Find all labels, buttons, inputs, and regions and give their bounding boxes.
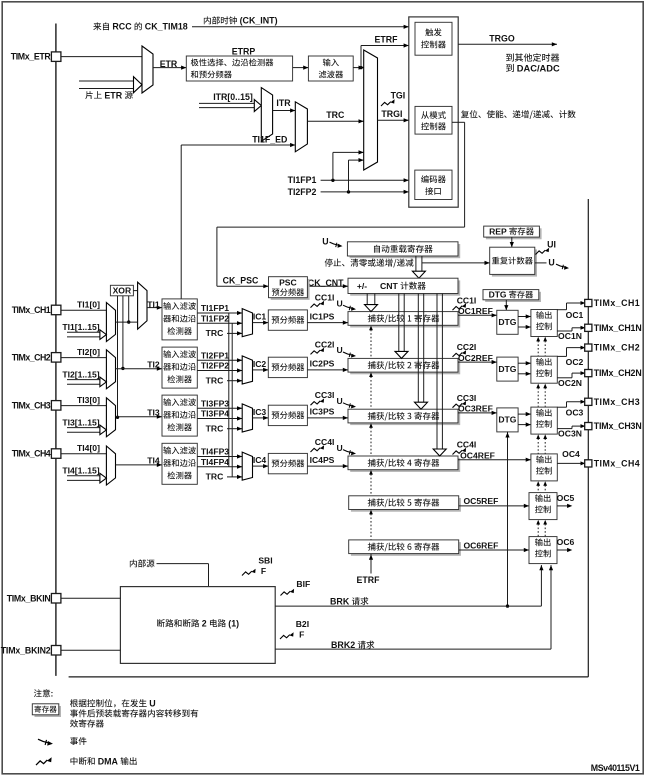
svg-text:B2I: B2I [296,619,309,629]
svg-text:TIMx_CH2: TIMx_CH2 [594,343,640,353]
svg-text:IC1: IC1 [253,312,267,322]
svg-text:TIMx_CH2N: TIMx_CH2N [594,368,642,378]
svg-text:CC3I: CC3I [457,393,477,403]
svg-text:TIMx_CH3N: TIMx_CH3N [594,421,642,431]
svg-text:OC3N: OC3N [558,429,582,439]
svg-text:TIMx_BKIN2: TIMx_BKIN2 [1,645,51,655]
svg-text:TRGI: TRGI [381,109,402,119]
svg-text:RCC: RCC [112,22,132,32]
svg-text:ETRF: ETRF [357,575,381,585]
svg-text:2: 2 [202,618,207,628]
svg-text:U: U [322,236,328,246]
svg-text:TI2FP1: TI2FP1 [201,351,229,361]
svg-text:TRC: TRC [206,472,224,482]
svg-text:CK_PSC: CK_PSC [223,275,259,285]
svg-text:TI4[1..15]: TI4[1..15] [62,466,99,476]
svg-text:CC4I: CC4I [457,440,477,450]
svg-text:CC2I: CC2I [457,342,477,352]
svg-text:TI2FP2: TI2FP2 [288,187,317,197]
svg-text:(CK_INT): (CK_INT) [240,16,278,26]
svg-text:U: U [336,298,342,308]
svg-text:TI3: TI3 [147,408,160,418]
svg-text:CK_TIM18: CK_TIM18 [145,22,188,32]
svg-text:TIMx_CH1: TIMx_CH1 [12,305,51,315]
svg-text:CC3I: CC3I [315,390,335,400]
svg-text:DTG: DTG [498,415,516,425]
svg-text:IC2PS: IC2PS [310,359,335,369]
svg-text:REP: REP [489,226,507,236]
svg-text:TIMx_CH4: TIMx_CH4 [12,449,51,459]
svg-text:TI1FP2: TI1FP2 [201,313,229,323]
svg-text:DMA: DMA [98,756,119,766]
svg-text:OC3REF: OC3REF [458,404,493,414]
svg-text:TIMx_ETR: TIMx_ETR [11,52,52,62]
svg-text:OC6: OC6 [557,537,575,547]
svg-text:OC6REF: OC6REF [463,540,498,550]
svg-text:UI: UI [547,239,556,249]
svg-text:TI3FP3: TI3FP3 [201,399,229,409]
svg-text:TIMx_BKIN: TIMx_BKIN [7,593,51,603]
svg-text:ITR: ITR [276,98,291,108]
svg-text:TI4FP3: TI4FP3 [201,447,229,457]
svg-text:TI2FP2: TI2FP2 [201,361,229,371]
svg-text:(1): (1) [228,618,239,628]
svg-text:DAC/ADC: DAC/ADC [517,64,560,74]
svg-text:TI2: TI2 [147,360,160,370]
svg-text:TRC: TRC [206,376,224,386]
svg-text:DTG: DTG [489,290,507,300]
svg-text:OC1: OC1 [566,310,584,320]
svg-text:OC1REF: OC1REF [458,306,493,316]
svg-text:+/-: +/- [357,281,367,291]
svg-text:U: U [336,345,342,355]
svg-text:CC4I: CC4I [315,437,335,447]
svg-text:TI1F_ED: TI1F_ED [252,134,287,144]
svg-text:OC4REF: OC4REF [460,451,495,461]
svg-text:MSv40115V1: MSv40115V1 [591,763,640,773]
svg-text:TIMx_CH1: TIMx_CH1 [594,298,640,308]
svg-text:ETR: ETR [104,90,122,100]
svg-text:CC1I: CC1I [457,295,477,305]
svg-text:TIMx_CH3: TIMx_CH3 [594,397,640,407]
svg-text:TI3FP4: TI3FP4 [201,409,229,419]
svg-text:TRC: TRC [206,424,224,434]
svg-text:SBI: SBI [258,556,272,566]
svg-text:OC2: OC2 [566,357,584,367]
svg-text:ETR: ETR [160,59,178,69]
svg-text:OC1N: OC1N [558,331,582,341]
svg-text:TI3[1..15]: TI3[1..15] [62,417,99,427]
svg-text:TIMx_CH1N: TIMx_CH1N [594,323,642,333]
svg-text:U: U [336,443,342,453]
svg-text:TRC: TRC [206,328,224,338]
svg-text:U: U [548,257,554,267]
svg-text:OC3: OC3 [566,408,584,418]
svg-text:TI1[1..15]: TI1[1..15] [62,322,99,332]
svg-text:U: U [149,698,155,708]
svg-text:OC5REF: OC5REF [463,496,498,506]
svg-text:TRC: TRC [326,110,345,120]
svg-text:ETRF: ETRF [375,34,399,44]
svg-text:IC3: IC3 [253,407,267,417]
svg-text:TI3[0]: TI3[0] [77,395,100,405]
svg-text:TGI: TGI [391,90,406,100]
svg-text:BRK: BRK [330,596,350,606]
svg-text:TIMx_CH2: TIMx_CH2 [12,352,51,362]
svg-text:TI2[1..15]: TI2[1..15] [62,369,99,379]
svg-text:IC3PS: IC3PS [310,407,335,417]
svg-text:IC4: IC4 [253,455,267,465]
svg-text:TRGO: TRGO [489,34,515,44]
svg-text:OC4: OC4 [562,449,580,459]
svg-text:TI4: TI4 [147,456,160,466]
svg-text:IC2: IC2 [253,359,267,369]
svg-text:CC1I: CC1I [315,293,335,303]
svg-text:OC2REF: OC2REF [458,353,493,363]
svg-text:TI4[0]: TI4[0] [77,443,100,453]
svg-text:CNT: CNT [380,281,399,291]
svg-text:ETRP: ETRP [232,47,256,57]
svg-text:ITR[0..15]: ITR[0..15] [213,92,253,102]
svg-text:F: F [261,566,266,576]
svg-text:BRK2: BRK2 [331,640,355,650]
svg-text:TI1FP1: TI1FP1 [201,303,229,313]
svg-text:F: F [299,630,304,640]
svg-text:TI4FP4: TI4FP4 [201,457,229,467]
svg-text:U: U [336,396,342,406]
svg-text:TIMx_CH3: TIMx_CH3 [12,400,51,410]
svg-text:TI1: TI1 [147,299,160,309]
svg-text:IC4PS: IC4PS [310,455,335,465]
svg-text:OC2N: OC2N [558,378,582,388]
svg-text:DTG: DTG [498,364,516,374]
svg-text:CC2I: CC2I [315,339,335,349]
svg-text:TIMx_CH4: TIMx_CH4 [594,459,640,469]
svg-text:TI1[0]: TI1[0] [77,300,100,310]
svg-text:TI1FP1: TI1FP1 [288,175,317,185]
svg-text:OC5: OC5 [557,493,575,503]
svg-text:XOR: XOR [113,286,132,296]
svg-text:DTG: DTG [498,317,516,327]
svg-text:PSC: PSC [279,278,297,288]
svg-text:TI2[0]: TI2[0] [77,347,100,357]
svg-text:IC1PS: IC1PS [310,311,335,321]
svg-text:BIF: BIF [296,579,310,589]
